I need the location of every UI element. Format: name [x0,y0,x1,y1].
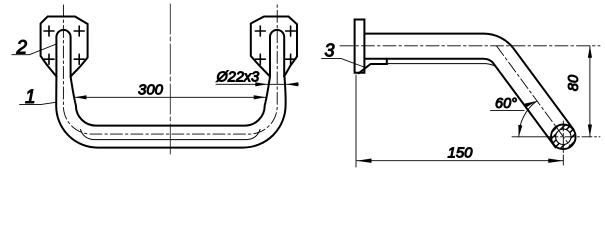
svg-text:150: 150 [447,145,473,162]
tube 1: rounded flattened end inside right flange [270,30,284,77]
section hatching in tube wall annulus [540,116,582,163]
tube 1: rounded flattened end inside left flange [56,30,70,77]
dimension Ø22x3: leader line and arrows at right leg [216,83,299,85]
svg-text:80: 80 [566,75,582,91]
wire: tube axis centerline, side view diagonal through bend [497,46,571,147]
flange plate (right): octagonal outline [251,17,297,77]
svg-text:300: 300 [138,82,164,99]
tube 1: outer contour of U-shaped handle, front view [56,77,285,148]
flange 3 foot: bottom chamfer wedge [359,59,387,73]
wire: tube axis centerline, side view horizontal [340,45,600,47]
rivet cross marks, left flange [44,26,84,64]
dimension 300: line with outward arrows [75,96,266,98]
rivet cross marks, right flange [255,26,295,64]
angle 60 reference line (horizontal from vertex) [512,136,551,138]
tube end cross-section: inner circle (bore) [556,129,571,144]
tube outer bottom edge with 60-degree bend, side view [364,59,555,148]
dimension 150: extension line at mounting face [355,75,357,167]
svg-text:Ø22x3: Ø22x3 [216,70,260,86]
tube thin flattening line, side view [387,64,499,70]
node: cross-section horizontal centerline / 80 extension [548,136,600,138]
flange plate 2 (left): octagonal outline [41,17,88,77]
tube 1: inner contour of U-shaped handle, front view [71,77,270,126]
node axis: front view vertical symmetry centerline [169,4,171,157]
tube outer top edge with 60-degree bend, side view [364,34,573,130]
svg-text:3: 3 [325,41,335,61]
svg-text:2: 2 [16,38,28,59]
tube end cross-section: outer circle [551,125,576,150]
tube 1: thin inner-wall line along bottom run [81,130,261,140]
dimension 80: line with outward arrows [589,46,591,137]
angle 60 dimension arc with arrows [519,101,537,137]
flange plate 3, side view: vertical plate [355,20,365,73]
wire: tube centerline (dash-dot) of part 1 front view [63,5,277,134]
node: cross-section vertical centerline [562,121,564,167]
dimension 150: line with outward arrows [357,160,564,162]
svg-text:60°: 60° [495,96,517,112]
